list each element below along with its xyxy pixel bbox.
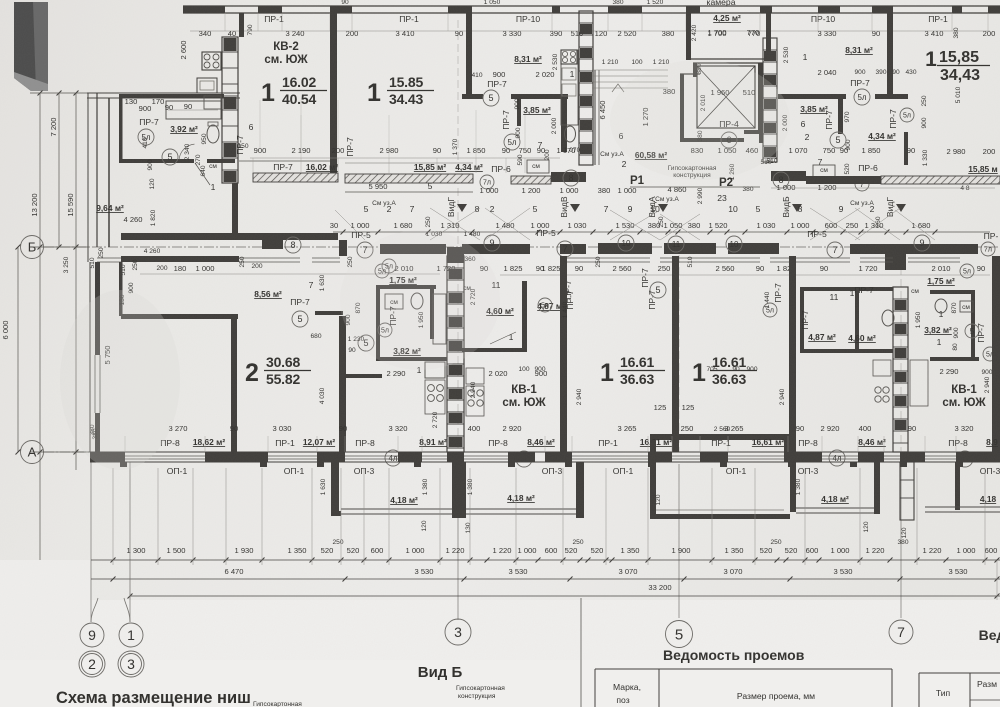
shaft below wall right bbox=[900, 462, 914, 520]
room bottom boundary lines bbox=[239, 160, 330, 162]
top exterior wall bbox=[183, 5, 1000, 7]
bathroom 3,92: left wall bbox=[119, 98, 123, 163]
right dark niche bar bbox=[771, 171, 806, 181]
axis circle 9 bbox=[80, 623, 104, 647]
right solid wall + hatched sill band bbox=[806, 176, 881, 184]
apartment wall x560 lower bbox=[560, 256, 567, 452]
svg-text:1: 1 bbox=[127, 627, 135, 643]
corridor lower thin lines left half bbox=[97, 257, 121, 259]
wall horiz y311 connector bbox=[315, 311, 343, 315]
leader curves to axis circles 9/1 bbox=[91, 598, 98, 622]
axis circle 5 bbox=[666, 621, 693, 648]
middle vent shaft column bbox=[579, 11, 593, 165]
corridor bottom wall left bbox=[121, 256, 239, 262]
middle counter column bbox=[561, 50, 578, 125]
svg-text:5: 5 bbox=[675, 626, 683, 643]
corridor jamb stub bbox=[339, 240, 347, 256]
window sill stubs below bottom wall bbox=[120, 462, 127, 467]
bottom interior wall y436 bbox=[650, 434, 790, 440]
stair flight lines bbox=[592, 69, 668, 71]
corridor top wall left bbox=[121, 233, 262, 240]
border line x581 bbox=[580, 598, 582, 707]
right bathroom cluster 4,87/4,60 bbox=[800, 287, 804, 353]
svg-text:2: 2 bbox=[88, 656, 96, 672]
axis B horizontal bbox=[44, 246, 1000, 248]
extension verticals in 16.02/15.85 rooms bbox=[300, 115, 302, 158]
door leader 1 bbox=[195, 163, 210, 185]
svg-text:3: 3 bbox=[127, 656, 135, 672]
toilet bbox=[207, 125, 219, 143]
svg-text:Вед: Вед bbox=[979, 627, 1000, 643]
bottom exterior wall bbox=[90, 451, 1000, 453]
faint axis verticals inside plan bbox=[457, 20, 459, 452]
axis verticals to bottom circles bbox=[90, 462, 92, 622]
door arc bathroom bbox=[179, 144, 194, 159]
room 8,56 walls bbox=[119, 262, 123, 316]
stove 4 burners bbox=[202, 52, 221, 70]
kitchen shaft column upper-left bbox=[222, 37, 238, 183]
balcony B bbox=[576, 462, 584, 518]
corridor wall mid bbox=[380, 244, 446, 254]
svg-text:Гипсокартонная: Гипсокартонная bbox=[456, 685, 505, 692]
corridor walls right half bbox=[560, 244, 586, 254]
balcony A bbox=[331, 462, 339, 514]
sink box bbox=[204, 96, 221, 109]
kitchen appliances right of shaft bbox=[466, 368, 484, 384]
svg-text:Схема размещение ниш: Схема размещение ниш bbox=[56, 689, 251, 707]
svg-text:поз: поз bbox=[616, 695, 629, 705]
extension verticals above bottom wall bbox=[124, 436, 126, 452]
axis circle 3 section bbox=[445, 619, 471, 645]
corridor lower thin lines right half bbox=[567, 257, 650, 259]
middle cluster walls (8,31 / 3,85) bbox=[462, 94, 483, 99]
svg-text:9: 9 bbox=[88, 627, 96, 643]
hatched sill band 15.85 bbox=[345, 174, 473, 183]
middle hatch extension bbox=[511, 176, 551, 184]
bathroom 3,92: bottom wall bbox=[119, 159, 194, 163]
svg-text:Разм: Разм bbox=[977, 679, 997, 689]
wall x339 lower bbox=[339, 316, 346, 452]
table 2 fragment bbox=[919, 672, 1000, 674]
wall: upper-left apartment top bbox=[87, 92, 240, 94]
corridor niche block bbox=[262, 233, 283, 249]
balcony C bbox=[790, 462, 796, 512]
hatched sill band under 16.02 bbox=[253, 173, 338, 182]
lower central shaft column bbox=[447, 256, 464, 452]
shaft dark under corridor bbox=[447, 247, 464, 263]
axis circle 1 bbox=[119, 623, 143, 647]
middle dark niche bar bbox=[551, 172, 586, 182]
balcony middle box bbox=[650, 440, 656, 514]
kitchen appliances left of shaft bbox=[425, 362, 445, 378]
left exterior wall lower bbox=[89, 262, 91, 452]
leader diagonals near corridor bbox=[430, 208, 480, 240]
extension verticals row A bbox=[112, 468, 114, 565]
elevator shaft PR-4 bbox=[680, 74, 684, 142]
axis circle 3 bbox=[118, 651, 144, 677]
bath tub lower bbox=[433, 294, 446, 344]
elevator cross box bbox=[697, 66, 755, 128]
svg-text:Ведомость проемов: Ведомость проемов bbox=[663, 647, 805, 663]
right vent shaft column bbox=[763, 38, 777, 162]
wall under 8,56 bbox=[121, 314, 238, 319]
scan noise overlay bbox=[0, 0, 1, 1]
svg-text:3: 3 bbox=[454, 624, 462, 640]
right edge wall bbox=[992, 256, 1000, 452]
axis circle 2 bbox=[79, 651, 105, 677]
bathroom cluster 1,75/3,82 bbox=[376, 285, 380, 361]
svg-text:7: 7 bbox=[897, 624, 905, 640]
wall right of 15.85 bbox=[466, 6, 472, 94]
left 6000 dim line bbox=[17, 247, 19, 452]
wall between 16.02 and 15.85 bbox=[330, 6, 337, 173]
room 4,60 walls bbox=[522, 281, 527, 352]
scan corner black bar bbox=[14, 2, 48, 91]
right kitchen appliances bbox=[873, 360, 891, 376]
wall horiz y374 bbox=[346, 374, 382, 378]
apartment divider x789 bbox=[789, 256, 796, 452]
right shaft column lower bbox=[893, 287, 908, 452]
wall stub left of 16.02 bbox=[239, 13, 244, 37]
camera room top bbox=[686, 6, 691, 60]
balcony D right edge bbox=[955, 462, 960, 510]
stair wall right of vent column bbox=[594, 70, 596, 165]
apartment divider x231 lower bbox=[231, 319, 237, 452]
left vertical dim lines bbox=[39, 93, 41, 560]
right cluster walls bbox=[778, 94, 846, 99]
center shaft below wall bbox=[452, 462, 466, 518]
svg-text:Размер проема, мм: Размер проема, мм bbox=[737, 691, 815, 701]
axis A horizontal bbox=[44, 451, 1000, 453]
svg-text:Гипсокартонная: Гипсокартонная bbox=[253, 701, 302, 707]
extension verticals upper plan bbox=[252, 158, 254, 173]
bathtub bbox=[166, 101, 221, 119]
axis circle 7 bbox=[889, 620, 913, 644]
apartment divider x672 bbox=[672, 256, 679, 452]
wall stub under kitchen column to corridor bbox=[232, 183, 238, 233]
svg-text:Тип: Тип bbox=[936, 688, 951, 698]
oven box bbox=[197, 78, 217, 93]
faint scan blotches bbox=[60, 290, 180, 470]
svg-text:Марка,: Марка, bbox=[613, 682, 641, 692]
window thin lines in gaps bbox=[125, 455, 205, 457]
right section wall x887 bbox=[887, 6, 893, 95]
wall: upper-left exterior left bbox=[87, 93, 89, 247]
svg-text:Вид Б: Вид Б bbox=[418, 664, 463, 681]
svg-text:конструкция: конструкция bbox=[458, 693, 496, 700]
